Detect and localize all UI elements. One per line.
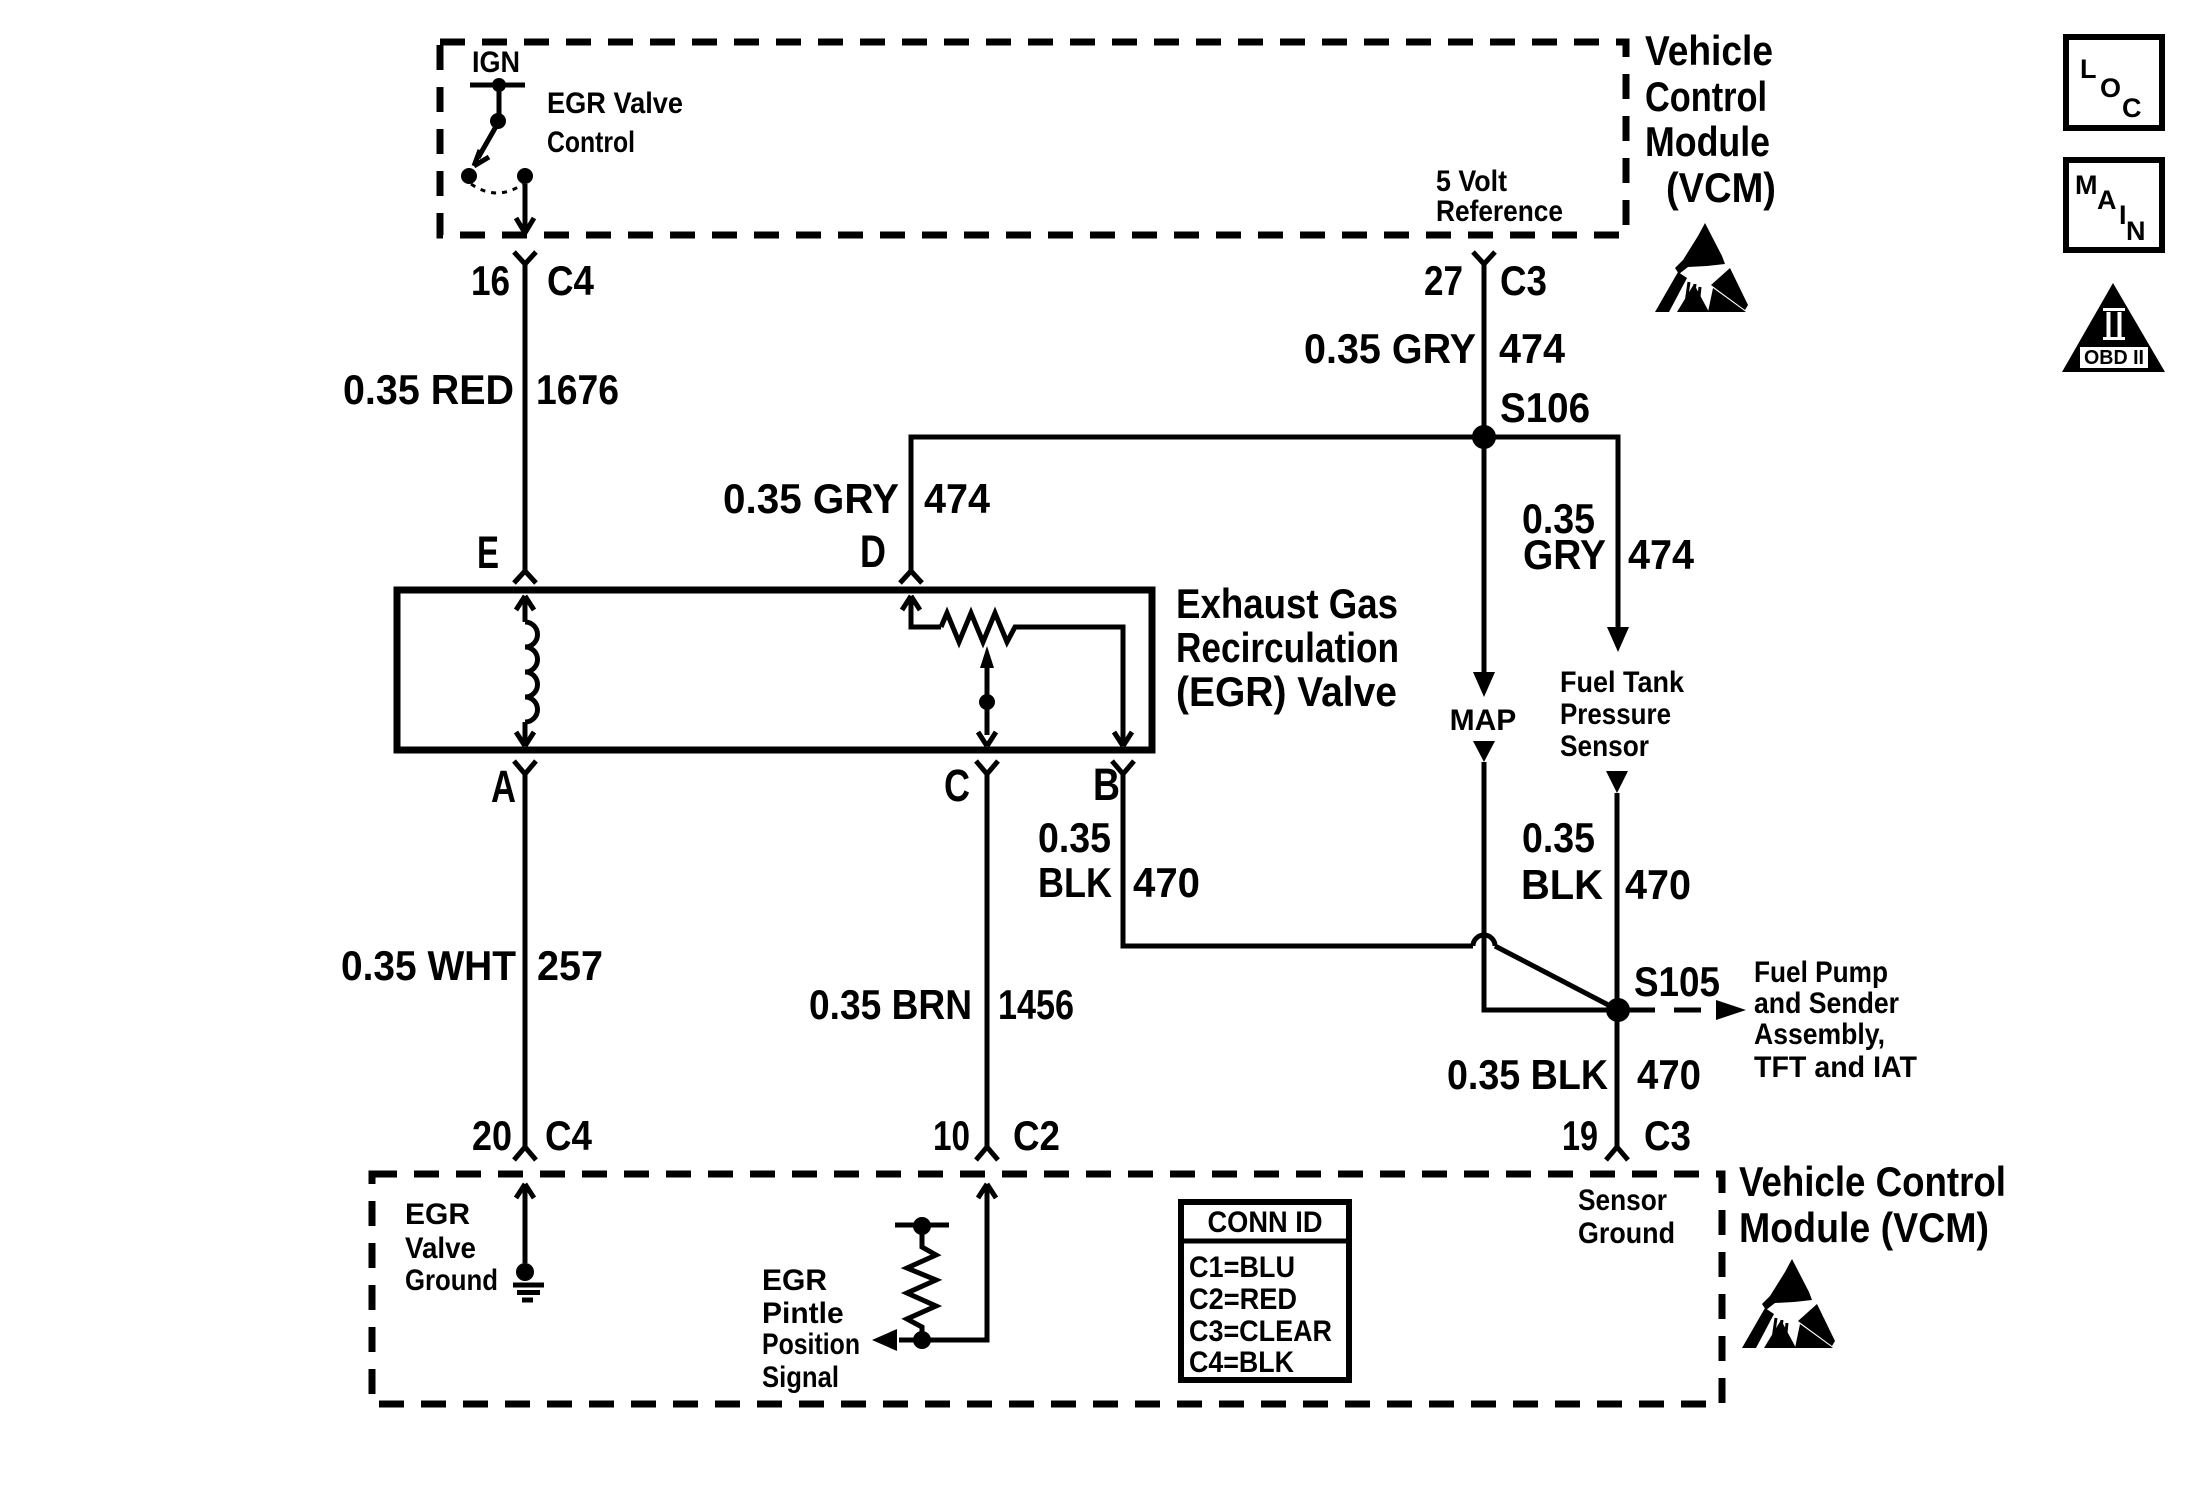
svg-text:Ground: Ground — [405, 1264, 498, 1297]
svg-text:A: A — [491, 761, 516, 812]
svg-text:(EGR) Valve: (EGR) Valve — [1176, 668, 1397, 715]
svg-text:Signal: Signal — [762, 1361, 839, 1394]
svg-text:EGR: EGR — [405, 1198, 470, 1231]
svg-text:16: 16 — [471, 257, 510, 304]
svg-text:C4=BLK: C4=BLK — [1189, 1346, 1294, 1379]
svg-text:27: 27 — [1424, 257, 1463, 304]
svg-text:Vehicle: Vehicle — [1645, 27, 1773, 74]
svg-text:BLK: BLK — [1038, 859, 1112, 906]
svg-text:S105: S105 — [1634, 958, 1720, 1005]
svg-text:Sensor: Sensor — [1560, 730, 1649, 763]
svg-text:C4: C4 — [547, 257, 595, 304]
svg-text:20: 20 — [472, 1112, 512, 1159]
svg-text:C: C — [2122, 93, 2142, 123]
svg-text:N: N — [2126, 216, 2146, 246]
svg-text:C2: C2 — [1013, 1112, 1060, 1159]
svg-text:19: 19 — [1562, 1112, 1598, 1159]
svg-text:Assembly,: Assembly, — [1754, 1018, 1885, 1051]
svg-text:Fuel Tank: Fuel Tank — [1560, 666, 1684, 699]
svg-text:Control: Control — [1645, 73, 1767, 120]
svg-text:Valve: Valve — [405, 1232, 476, 1265]
svg-text:C3: C3 — [1500, 257, 1547, 304]
svg-text:0.35 RED: 0.35 RED — [343, 366, 514, 413]
svg-text:Control: Control — [547, 126, 635, 159]
svg-text:and Sender: and Sender — [1754, 987, 1899, 1020]
svg-text:470: 470 — [1625, 861, 1691, 908]
svg-text:OBD II: OBD II — [2084, 347, 2144, 369]
svg-text:257: 257 — [537, 942, 603, 989]
svg-text:D: D — [860, 526, 886, 577]
svg-text:10: 10 — [933, 1112, 970, 1159]
svg-text:IGN: IGN — [472, 46, 520, 79]
svg-text:M: M — [2075, 170, 2098, 200]
svg-text:C4: C4 — [545, 1112, 593, 1159]
svg-text:5 Volt: 5 Volt — [1436, 165, 1507, 198]
svg-text:0.35: 0.35 — [1038, 814, 1111, 861]
svg-text:EGR Valve: EGR Valve — [547, 87, 683, 120]
svg-text:TFT and IAT: TFT and IAT — [1754, 1051, 1917, 1084]
svg-text:0.35: 0.35 — [1522, 814, 1595, 861]
svg-text:1456: 1456 — [998, 981, 1074, 1028]
svg-text:Pressure: Pressure — [1560, 698, 1671, 731]
svg-text:Sensor: Sensor — [1578, 1184, 1667, 1217]
svg-text:Position: Position — [762, 1328, 860, 1361]
svg-text:BLK: BLK — [1521, 861, 1603, 908]
svg-text:474: 474 — [1499, 325, 1566, 372]
svg-text:E: E — [477, 527, 499, 578]
svg-text:Module (VCM): Module (VCM) — [1739, 1204, 1989, 1251]
svg-text:GRY: GRY — [1523, 531, 1606, 578]
svg-text:C1=BLU: C1=BLU — [1189, 1251, 1295, 1284]
svg-text:474: 474 — [924, 475, 991, 522]
svg-text:C3=CLEAR: C3=CLEAR — [1189, 1315, 1332, 1348]
svg-text:EGR: EGR — [762, 1264, 827, 1297]
svg-text:0.35 GRY: 0.35 GRY — [1304, 325, 1476, 372]
svg-text:MAP: MAP — [1450, 704, 1517, 737]
svg-text:1676: 1676 — [536, 366, 619, 413]
svg-text:C2=RED: C2=RED — [1189, 1283, 1297, 1316]
svg-text:CONN ID: CONN ID — [1208, 1206, 1323, 1239]
svg-text:(VCM): (VCM) — [1666, 164, 1776, 211]
svg-text:470: 470 — [1133, 859, 1200, 906]
svg-text:Exhaust Gas: Exhaust Gas — [1176, 580, 1398, 627]
svg-text:474: 474 — [1628, 531, 1695, 578]
svg-text:S106: S106 — [1500, 384, 1590, 431]
svg-text:L: L — [2080, 54, 2097, 84]
svg-text:Fuel Pump: Fuel Pump — [1754, 956, 1888, 989]
svg-text:0.35 BLK: 0.35 BLK — [1447, 1051, 1608, 1098]
svg-text:Recirculation: Recirculation — [1176, 624, 1399, 671]
svg-text:Pintle: Pintle — [762, 1297, 844, 1330]
svg-text:Vehicle Control: Vehicle Control — [1739, 1158, 2006, 1205]
svg-text:Reference: Reference — [1436, 195, 1563, 228]
svg-text:0.35 GRY: 0.35 GRY — [723, 475, 899, 522]
svg-text:Ground: Ground — [1578, 1217, 1675, 1250]
svg-text:C: C — [944, 760, 970, 811]
svg-text:O: O — [2100, 73, 2121, 103]
svg-text:A: A — [2097, 185, 2117, 215]
svg-text:470: 470 — [1637, 1051, 1701, 1098]
svg-text:C3: C3 — [1644, 1112, 1691, 1159]
svg-text:B: B — [1093, 759, 1120, 810]
svg-text:0.35 BRN: 0.35 BRN — [809, 981, 972, 1028]
svg-text:0.35 WHT: 0.35 WHT — [341, 942, 516, 989]
svg-text:Module: Module — [1645, 118, 1770, 165]
